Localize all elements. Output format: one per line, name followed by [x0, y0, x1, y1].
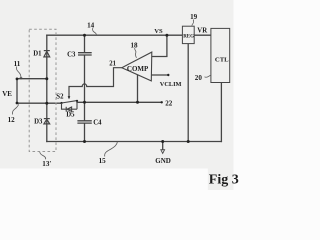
svg-text:20: 20	[195, 74, 203, 82]
wire comparator output to VS	[152, 35, 167, 56]
svg-text:Fig 3: Fig 3	[209, 172, 239, 187]
leader 12	[12, 104, 18, 114]
svg-text:22: 22	[165, 100, 173, 108]
leader 18	[135, 48, 137, 58]
switch S2 lever	[62, 101, 78, 110]
wire C3 C4 branch vertical	[84, 35, 86, 141]
diode D3	[44, 119, 50, 124]
wire REG to CTL (VR)	[194, 34, 211, 36]
wire VE source vertical	[16, 79, 18, 104]
svg-text:18: 18	[131, 42, 139, 50]
capacitor C3	[78, 53, 92, 55]
leader 13'	[40, 152, 46, 159]
svg-text:S2: S2	[56, 94, 64, 101]
svg-text:D3: D3	[34, 119, 43, 126]
svg-text:C4: C4	[93, 119, 102, 126]
svg-text:D5: D5	[66, 112, 75, 119]
diode D5 bypass loop	[62, 103, 78, 112]
arrowhead onto switch S2	[68, 96, 71, 99]
svg-text:12: 12	[8, 116, 16, 124]
wire 21 comparator output with hop over C3 branch	[69, 68, 122, 97]
node 22 terminal dot	[161, 101, 163, 103]
figure background	[0, 0, 234, 169]
svg-text:COMP: COMP	[127, 65, 149, 73]
terminal 12 dot	[16, 102, 19, 105]
leader 19	[192, 20, 194, 27]
svg-text:VCLIM: VCLIM	[160, 81, 182, 88]
svg-text:15: 15	[99, 157, 107, 165]
svg-text:CTL: CTL	[215, 56, 229, 63]
svg-text:VR: VR	[197, 27, 207, 34]
leader 11	[16, 67, 21, 78]
svg-text:14: 14	[87, 22, 95, 30]
leader circle at node 11	[20, 77, 22, 79]
wire comparator lower input to node 22 row	[137, 75, 139, 103]
leader 20	[205, 75, 211, 77]
wire node 12 horizontal	[17, 102, 62, 104]
wire VCLIM stub	[152, 74, 169, 76]
wire GND stub	[162, 142, 164, 150]
leader 15	[105, 142, 118, 157]
svg-text:GND: GND	[155, 157, 171, 165]
svg-text:REG: REG	[183, 34, 194, 39]
VCLIM terminal dot	[167, 74, 169, 76]
leader 14	[93, 28, 97, 35]
op-amp comparator COMP U18	[122, 52, 152, 81]
wire REG ground drop	[187, 44, 189, 142]
fig3 gray block	[208, 169, 234, 191]
svg-text:C3: C3	[67, 52, 76, 59]
wire node 11 horizontal	[17, 78, 47, 80]
svg-text:VE: VE	[2, 90, 12, 98]
wire S2 output row to node 22	[77, 101, 162, 103]
wire bottom rail 15	[47, 141, 222, 143]
regulator box REG	[182, 26, 194, 43]
dashed box 13	[29, 29, 56, 151]
svg-text:21: 21	[109, 61, 116, 68]
controller box CTL	[211, 28, 230, 82]
wire VS top rail 14	[47, 34, 183, 36]
ground open arrowhead	[161, 150, 165, 154]
svg-text:VS: VS	[154, 28, 163, 35]
diode D1	[44, 51, 50, 57]
wire left diode branch	[46, 35, 48, 141]
terminal 11 dot	[16, 78, 19, 81]
svg-text:13′: 13′	[42, 160, 51, 168]
wire CTL bottom drop	[220, 83, 222, 142]
svg-text:11: 11	[14, 60, 21, 68]
junction node dots	[83, 34, 86, 37]
leader squiggles	[12, 20, 210, 160]
capacitor C4	[77, 121, 91, 123]
svg-text:D1: D1	[33, 51, 42, 58]
svg-text:19: 19	[190, 13, 198, 21]
